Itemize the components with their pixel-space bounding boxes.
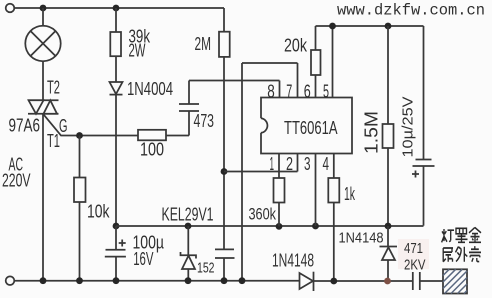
node 1.5M/rail junction [385,23,392,30]
svg-text:www.dzkfw.com.cn: www.dzkfw.com.cn [337,2,485,20]
triac 97A6 [28,100,59,114]
wire 2M top lead [223,8,225,32]
wire bottom rail left [15,280,300,282]
resistor R 100 [138,130,189,141]
terminal top-left [6,4,15,13]
node x242/bottom junction [239,277,246,284]
lamp shade metal shell (hatched) [443,269,467,293]
wire lamp to triac [42,61,44,100]
svg-text:2KV: 2KV [404,256,426,273]
node 100u/bottom junction [113,277,120,284]
svg-text:2M: 2M [195,34,212,54]
wire triac gate [43,114,138,136]
svg-text:T1: T1 [47,131,60,151]
svg-text:KEL29V1: KEL29V1 [162,205,214,225]
diode 1N4148 horizontal [300,272,413,291]
diode 1N4004 [110,82,123,226]
node 1N4004/VDD-wire junction [113,223,120,230]
capacitor 152 (x224) [215,249,235,280]
capacitor 10u 25V [412,26,435,226]
svg-text:16V: 16V [133,249,153,269]
capacitor 473 [179,81,199,136]
pin 6 lead [315,75,317,98]
svg-text:7: 7 [286,81,292,101]
wire top rail right [316,25,424,27]
node 152cap/bottom junction [221,277,228,284]
node pin3/VDD junction [312,223,319,230]
svg-text:T2: T2 [47,78,60,98]
node 10k/bottom junction [76,277,83,284]
svg-text:471: 471 [404,240,423,257]
terminal bottom-left [6,276,15,285]
node zener/bottom junction [185,277,192,284]
watermark smudge [398,239,429,269]
svg-text:TT6061A: TT6061A [284,118,338,138]
wire VDD rail y226 [116,225,424,227]
resistor 10k [74,136,86,281]
svg-text:5: 5 [323,81,329,101]
wire pin7 riser [242,63,298,98]
wire triac T1 to bottom rail [42,114,44,281]
svg-text:3: 3 [304,154,311,174]
node gate/10k junction [76,132,83,139]
node zener/VDD junction [185,223,192,230]
label lamp-shade chinese line2 [443,246,481,262]
svg-text:6: 6 [304,81,311,101]
node pin5/rail junction [329,23,336,30]
svg-text:1: 1 [270,154,275,174]
pin 4 lead / resistor 1k [328,154,339,282]
pin 8 lead [279,81,281,98]
node T1/bottom junction [40,277,47,284]
wire pin2 run [224,154,298,172]
svg-text:10µ/25V: 10µ/25V [399,97,416,158]
svg-text:4: 4 [323,154,330,174]
svg-text:360k: 360k [249,205,277,224]
svg-text:473: 473 [194,111,215,131]
svg-text:2: 2 [286,154,293,174]
wire 39k branch [115,8,117,32]
svg-text:97A6: 97A6 [9,116,41,136]
svg-text:20k: 20k [284,36,308,56]
node diode/bottom junction (red) [384,278,391,285]
pin 1 lead / resistor 360k [274,154,285,227]
wire lamp top lead [42,8,44,26]
svg-text:10k: 10k [87,202,110,222]
node 1N4148/VDD junction [385,223,392,230]
node 360k/VDD junction [276,223,283,230]
wire pin7 to bottom rail (x242) [241,63,243,281]
resistor 1.5M [383,26,394,226]
svg-text:1N4004: 1N4004 [127,79,173,99]
svg-text:G: G [59,116,68,136]
resistor 20k [311,26,321,75]
resistor 39k 2W [110,32,121,82]
svg-text:100: 100 [140,140,164,160]
wire 473 to IC pin8 [189,80,280,82]
diode 1N4148 vertical [380,226,398,281]
svg-text:2W: 2W [129,41,146,61]
svg-text:152: 152 [197,260,215,277]
svg-text:1N4148: 1N4148 [339,230,384,247]
node 1k/bottom junction [330,278,337,285]
IC U1 TT6061A [261,98,352,154]
resistor 2M [219,32,230,250]
capacitor 100u 16V [105,226,126,281]
svg-text:1N4148: 1N4148 [272,251,314,271]
lamp EL [25,26,60,61]
pin 5 lead [332,26,334,98]
svg-text:8: 8 [267,81,275,101]
zener 152 [181,226,197,281]
svg-text:1.5M: 1.5M [362,111,382,154]
wire top rail [15,7,225,9]
node 2M/pin2-wire junction [221,168,228,175]
node 39k/top-rail junction [113,5,120,12]
svg-text:220V: 220V [2,171,31,191]
svg-text:1k: 1k [344,184,356,204]
capacitor 471 2KV [413,272,445,290]
label lamp-shade chinese line1 [442,227,481,242]
pin 3 lead [315,154,317,227]
node lamp/top-rail junction [40,5,47,12]
